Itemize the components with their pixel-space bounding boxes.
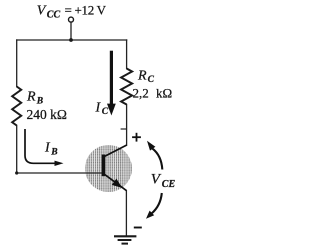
svg-text:R: R xyxy=(137,69,147,84)
svg-text:B: B xyxy=(36,96,43,106)
svg-text:CE: CE xyxy=(162,179,176,190)
svg-text:= +12 V: = +12 V xyxy=(65,3,107,18)
svg-text:kΩ: kΩ xyxy=(156,86,172,101)
svg-text:2,2: 2,2 xyxy=(133,86,149,101)
svg-text:C: C xyxy=(102,107,109,117)
svg-text:V: V xyxy=(37,4,47,19)
svg-text:CC: CC xyxy=(47,10,61,21)
svg-text:R: R xyxy=(26,90,36,105)
svg-text:C: C xyxy=(148,75,155,85)
svg-text:240 kΩ: 240 kΩ xyxy=(27,107,67,122)
svg-text:B: B xyxy=(50,147,57,157)
